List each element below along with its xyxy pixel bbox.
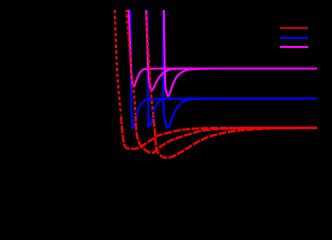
curve R1 xyxy=(115,10,121,115)
curve R2 xyxy=(126,10,135,115)
legend magenta line xyxy=(280,46,308,48)
curve B2 xyxy=(147,10,317,126)
curve B3 xyxy=(163,10,317,127)
curve M2 xyxy=(146,10,317,90)
curve B1 xyxy=(130,10,317,128)
curve M3 xyxy=(164,10,317,96)
legend blue line xyxy=(280,37,308,39)
legend red line xyxy=(280,27,308,29)
curve R3 xyxy=(146,10,153,114)
curve M1 xyxy=(129,10,317,87)
